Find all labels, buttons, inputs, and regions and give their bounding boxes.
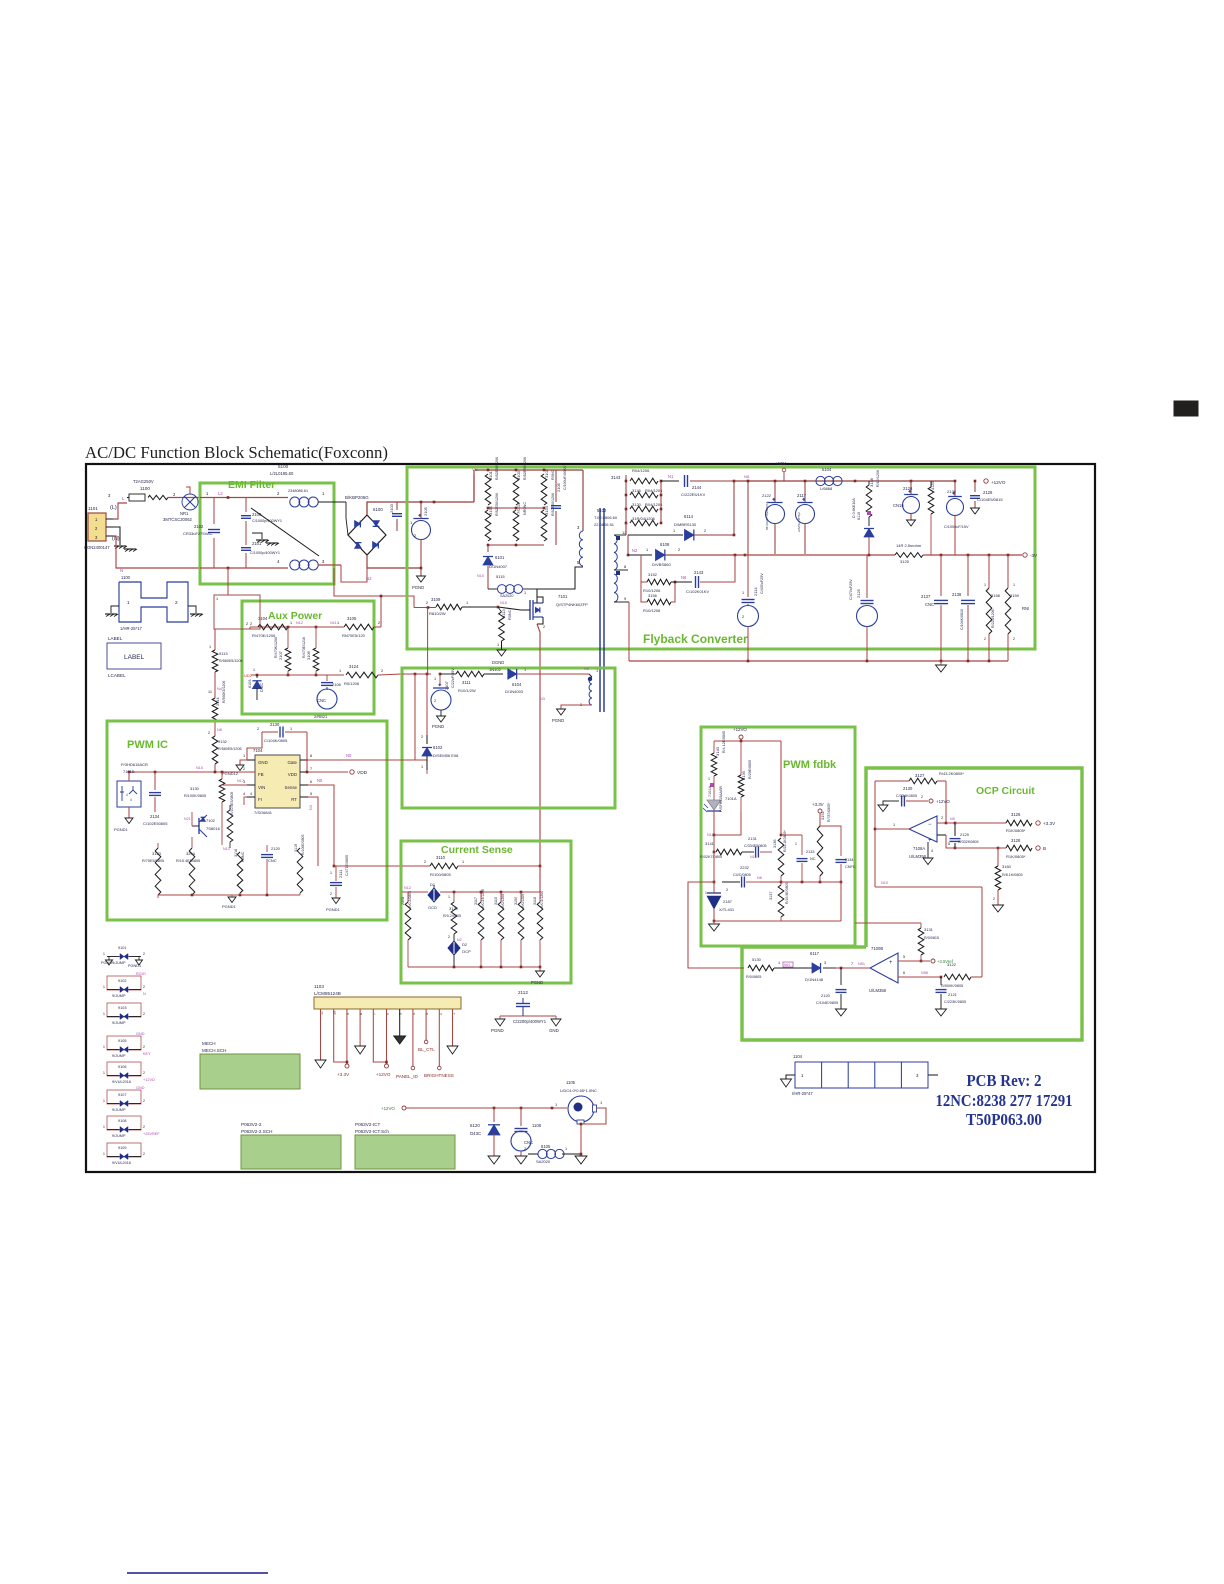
ground inductor right [188,606,196,613]
svg-text:RT: RT [291,797,297,802]
transistor 7102 [195,818,211,834]
svg-text:7100B: 7100B [871,946,883,951]
cap 2232 [713,852,715,882]
bridge rectifier 6100 [348,515,386,555]
svg-text:3151: 3151 [820,811,825,820]
svg-text:OCP Circuit: OCP Circuit [976,785,1035,797]
Current Sense block [401,841,571,983]
resistor 7S114 [513,510,519,541]
svg-text:6104: 6104 [512,682,522,687]
svg-text:SA2020: SA2020 [500,594,514,598]
cap 2130 [262,731,278,733]
svg-text:3101: 3101 [488,470,493,480]
svg-text:2112: 2112 [518,990,528,995]
svg-text:N58: N58 [921,971,928,975]
resistor 3116 [237,852,243,893]
svg-text:3124: 3124 [349,664,359,669]
wire opamp pin5 [937,834,946,836]
svg-text:D1: D1 [430,882,436,887]
cap 2114b [747,555,749,597]
resistor 3111 [440,673,456,675]
svg-text:N15: N15 [196,766,203,770]
svg-text:2134: 2134 [845,858,853,862]
svg-text:T.02.0806.60: T.02.0806.60 [594,515,618,520]
svg-text:R/75E5/0805: R/75E5/0805 [142,859,164,863]
svg-text:(L): (L) [110,505,117,511]
svg-text:3129: 3129 [449,906,459,911]
schematic border frame [86,464,1095,1172]
ground ocp cap [883,801,887,805]
section tab marker [1174,401,1198,416]
wire fdbk to ocp input [688,882,744,968]
svg-text:+: + [889,960,893,966]
svg-text:9113: 9113 [219,651,228,656]
svg-text:1: 1 [462,860,464,864]
svg-text:2137: 2137 [921,594,931,599]
svg-text:2: 2 [143,1071,145,1075]
svg-text:C/430uF25V: C/430uF25V [760,573,764,594]
PWM IC block [107,721,387,920]
svg-text:3141: 3141 [705,841,715,846]
svg-text:1108: 1108 [532,1123,542,1128]
svg-text:N: N [120,568,123,573]
svg-text:1: 1 [216,597,218,601]
svg-text:4: 4 [126,793,128,797]
svg-text:6102: 6102 [433,745,443,750]
earth ground Y-caps [252,533,262,539]
svg-text:R/470E/1206: R/470E/1206 [252,633,276,638]
svg-text:R/0.2/0805: R/0.2/0805 [443,914,461,918]
spark gap 9103 [107,1003,141,1017]
diode 6114 [625,523,627,535]
wire B out [955,847,998,849]
diamond OCP [453,934,455,941]
svg-text:+12VO: +12VO [376,1072,391,1077]
ground DGND [501,641,503,650]
cap 2121 [940,977,942,985]
svg-text:3125: 3125 [931,482,935,490]
connector 1101 [88,513,106,541]
resistor 3146 [630,492,658,498]
diode 6120 [493,1108,495,1122]
svg-text:9/JUMP: 9/JUMP [112,1054,126,1058]
zener 6110 [864,529,874,538]
svg-text:2: 2 [208,731,210,735]
svg-text:C/2200p/400WY1: C/2200p/400WY1 [513,1019,547,1024]
transformer secondary winding lower [614,574,618,602]
svg-text:PGND1: PGND1 [326,907,341,912]
svg-text:2105: 2105 [556,482,561,492]
diode 6103 [256,675,258,678]
svg-text:+12VD: +12VD [143,1078,155,1082]
inductor 3125 [895,553,923,558]
svg-text:7S8016: 7S8016 [206,826,221,831]
svg-text:1: 1 [253,668,255,672]
svg-text:Gate: Gate [287,760,297,765]
svg-text:4: 4 [243,792,245,796]
svg-text:6110: 6110 [857,512,861,520]
inductor 1100 block [119,582,188,622]
wire +12V to -3V riser [747,481,749,555]
svg-text:2107: 2107 [444,680,449,690]
cap 2126b [974,481,976,492]
svg-text:1: 1 [778,961,780,965]
cap 2131 [755,847,757,858]
svg-text:D2: D2 [462,942,468,947]
wire bridge + rail [367,502,474,515]
svg-text:+12V: +12V [775,461,787,466]
svg-text:N17: N17 [237,779,244,783]
svg-text:PGND: PGND [101,961,112,965]
wire 1103 pin1 gnd [452,1009,454,1046]
svg-text:X/TL431: X/TL431 [719,907,735,912]
svg-text:1: 1 [596,669,598,673]
svg-text:2: 2 [378,621,380,625]
wire shunt top [440,891,540,893]
svg-text:N8: N8 [217,728,222,732]
svg-text:2: 2 [257,727,259,731]
svg-text:P063V2-2.SCH: P063V2-2.SCH [241,1129,272,1134]
resistor 3115 [500,892,502,902]
wire aux out [378,674,402,675]
svg-text:R04/1206: R04/1206 [645,488,663,493]
svg-text:7101A: 7101A [725,796,737,801]
wire 1103 pin8 gnd [359,1009,361,1046]
svg-text:2: 2 [984,637,986,641]
svg-text:NC: NC [810,857,816,861]
op-amp 7106A [909,816,937,842]
svg-text:+3.3V: +3.3V [337,1072,350,1077]
svg-text:AC/DC Function Block Schematic: AC/DC Function Block Schematic(Foxconn) [85,443,388,462]
svg-text:PGND: PGND [432,724,444,729]
svg-text:2114: 2114 [215,697,220,706]
footer rule [127,1572,268,1574]
svg-text:3MTCSC20062: 3MTCSC20062 [163,517,193,522]
wire lower rail [488,544,544,546]
svg-text:L/6868: L/6868 [820,486,833,491]
svg-text:PWM IC: PWM IC [127,739,168,751]
svg-text:R/82E50/1206: R/82E50/1206 [523,457,527,480]
svg-text:R/470E/1216: R/470E/1216 [302,637,306,658]
EMI Filter block [200,483,334,584]
ground opamp 7106A [927,842,929,858]
svg-text:5115: 5115 [496,574,505,579]
svg-text:R/0/1206: R/0/1206 [521,894,525,908]
cap 2100 Y-cap [245,498,247,513]
diode 6101 [487,545,489,552]
svg-text:D/1N4007: D/1N4007 [489,564,508,569]
wire L2 [200,497,288,499]
svg-text:4: 4 [130,798,132,802]
svg-text:PGND1: PGND1 [222,904,237,909]
svg-text:7/SG6841: 7/SG6841 [254,810,273,815]
svg-text:T2AG250V: T2AG250V [133,479,154,484]
svg-text:-3V: -3V [1030,553,1038,558]
svg-text:1: 1 [209,645,211,649]
svg-text:12NC:8238 277 17291: 12NC:8238 277 17291 [936,1091,1073,1110]
svg-text:7102: 7102 [206,818,216,823]
common mode choke 5100 [290,497,300,507]
svg-text:3113: 3113 [501,609,506,618]
power +12VO flag fdbk [739,735,743,739]
svg-text:2: 2 [246,622,248,626]
svg-text:C4/C/0805: C4/C/0805 [733,873,751,877]
resistor 3127b [221,812,223,845]
svg-text:R/787/0805*: R/787/0805* [827,802,831,822]
svg-text:2: 2 [448,935,450,939]
svg-text:3105: 3105 [347,616,357,621]
svg-text:1: 1 [673,529,675,533]
cap 2134b [840,835,842,856]
svg-text:9103: 9103 [118,1006,126,1010]
wire choke to bridge [318,501,346,503]
capacitor 2102 X-cap [213,498,215,525]
svg-text:1: 1 [103,1099,105,1103]
svg-text:2117: 2117 [797,493,807,498]
ground PGND1 cap2111 [332,898,340,904]
svg-text:N12: N12 [296,621,303,625]
wire opamp out 2 [937,822,946,824]
wire N4 [214,672,216,698]
cap 2134 [154,772,156,790]
cap 2111 [334,865,336,867]
svg-text:R/29E/0805: R/29E/0805 [748,760,752,779]
svg-text:NR0NC: NR0NC [523,502,527,515]
svg-text:3160: 3160 [1002,864,1012,869]
svg-text:3119: 3119 [294,844,298,852]
wire PANEL_ID [412,1009,414,1066]
svg-text:C/22uF/35V: C/22uF/35V [451,668,455,688]
wire ocp left riser [874,781,876,887]
svg-text:R/100K/0805: R/100K/0805 [184,794,206,798]
svg-text:PCB Rev: 2: PCB Rev: 2 [967,1071,1042,1090]
coil 5104 [816,476,825,485]
cap 2130c [887,800,899,802]
resistor 3130 [221,772,223,779]
svg-text:1N102: 1N102 [489,667,502,672]
svg-text:−: − [889,977,893,983]
svg-text:2102: 2102 [194,524,204,529]
ground PGND aux winding [557,709,566,715]
shunt reg 2187 TL431 [707,896,721,909]
output +12VO [984,479,988,483]
diode D1 OCD [428,888,441,903]
gate drive wire [415,674,427,760]
svg-text:R04/1206: R04/1206 [632,468,650,473]
svg-text:D 0.6KE10A: D 0.6KE10A [852,498,856,518]
cap 2103 [396,502,398,510]
svg-text:7104: 7104 [253,748,263,753]
svg-text:3118: 3118 [533,897,537,905]
Aux Power block [242,601,374,714]
PWM fdbk block [701,727,855,946]
resistor 3118 [539,892,541,902]
resistor 3113 [499,612,505,641]
svg-text:3159: 3159 [1010,593,1020,598]
diode 6104 [508,669,517,679]
svg-text:R/8.1K/0805: R/8.1K/0805 [1002,873,1023,877]
svg-text:1101: 1101 [88,506,98,511]
svg-text:3146: 3146 [632,488,642,493]
cap 1108 [520,1108,522,1126]
svg-text:R/0/1206: R/0/1206 [501,894,505,908]
svg-text:3150: 3150 [514,897,518,905]
ground PGND1 rail [228,897,236,903]
svg-text:N11: N11 [330,621,337,625]
wire BL_CTL [425,1009,427,1040]
svg-text:R/100/0805: R/100/0805 [430,872,451,877]
svg-text:N21: N21 [184,817,191,821]
resistor 3122 [944,974,971,980]
wire aux right exit [380,596,382,627]
ground jack [580,1154,582,1156]
coil 5115 [487,566,489,589]
svg-text:9/JUMP: 9/JUMP [112,961,126,965]
wire VIN [222,784,247,786]
svg-text:2133: 2133 [806,850,814,854]
svg-text:1: 1 [243,754,245,758]
svg-text:7: 7 [310,767,312,771]
svg-text:3109: 3109 [431,597,441,602]
ground secondary [940,661,942,665]
resistor 3119 [297,848,303,893]
svg-text:2348086.61: 2348086.61 [288,489,308,493]
resistor 5130 [748,965,774,971]
svg-text:1: 1 [893,823,895,827]
svg-text:R/10/1206: R/10/1206 [876,470,880,487]
wire 1103 pin11 gnd [320,1009,322,1060]
svg-text:Current Sense: Current Sense [441,844,513,856]
svg-text:N2: N2 [457,938,462,942]
ground inductor left [111,606,119,613]
svg-text:2: 2 [243,767,245,771]
wire opamp5 ref [898,960,930,962]
svg-text:R/0.2/0805: R/0.2/0805 [408,891,412,908]
svg-text:Flyback Converter: Flyback Converter [643,632,748,646]
resistor 2107b [285,648,291,671]
svg-text:1: 1 [103,1152,105,1156]
wire MOSFET source sense [537,624,540,866]
svg-text:2: 2 [381,669,383,673]
svg-text:OCP: OCP [462,949,471,954]
resistor 2114c [212,698,218,722]
svg-text:3: 3 [726,888,728,892]
svg-text:D43C: D43C [470,1131,481,1136]
svg-text:R/0/0805: R/0/0805 [746,975,761,979]
svg-text:2114: 2114 [753,587,758,596]
wire L [113,503,127,519]
wire snubber join [733,481,735,535]
svg-text:N61: N61 [784,963,790,967]
svg-text:4: 4 [931,849,933,853]
svg-text:C/471E/0805: C/471E/0805 [345,855,349,876]
pin stub 1104 [928,1074,938,1076]
cap 2101 Y-cap [245,521,247,545]
svg-text:R0NC: R0NC [241,851,245,862]
svg-text:R/100E/0805: R/100E/0805 [301,835,305,855]
cap 2107 electrolytic [439,674,441,684]
ground 1108 [515,1156,527,1164]
svg-text:5: 5 [948,842,950,846]
svg-text:R/560E5/1206: R/560E5/1206 [219,659,243,663]
svg-text:5130: 5130 [752,957,762,962]
wire sense net [308,785,402,866]
svg-text:C/223K/0805: C/223K/0805 [944,1000,966,1004]
resistor 3129 [453,892,455,902]
svg-text:3158: 3158 [991,593,1001,598]
svg-text:9/JUMP: 9/JUMP [112,1021,126,1025]
wire N1 [661,480,679,482]
svg-text:1/HR-25*17: 1/HR-25*17 [120,626,143,631]
svg-text:R10/1206: R10/1206 [643,608,661,613]
svg-text:1: 1 [448,895,450,899]
svg-text:2103: 2103 [389,503,394,513]
svg-text:2: 2 [143,1125,145,1129]
resistor 3109 [436,604,462,610]
svg-text:R/82E50/1206: R/82E50/1206 [495,493,499,516]
svg-text:3136: 3136 [773,840,777,848]
svg-text:C/104K/0805: C/104K/0805 [264,738,288,743]
wire VB riser [473,475,475,502]
svg-text:1: 1 [497,643,499,647]
svg-text:2130: 2130 [903,786,913,791]
svg-text:2: 2 [524,1147,526,1151]
svg-text:2: 2 [143,952,145,956]
svg-text:1: 1 [795,842,797,846]
svg-text:2: 2 [993,897,995,901]
resistor 2308 [407,892,409,902]
svg-text:2: 2 [434,699,436,703]
svg-text:3130: 3130 [190,786,200,791]
svg-text:R04/1206: R04/1206 [645,502,663,507]
svg-text:1: 1 [127,600,130,605]
svg-text:3137: 3137 [769,892,773,900]
svg-text:N9: N9 [950,817,955,821]
svg-text:R/15.4E50806: R/15.4E50806 [176,859,200,863]
svg-text:R/82E50/1206: R/82E50/1206 [495,457,499,480]
wire secondary ground rail [629,660,1008,662]
cap 2125 [866,555,868,598]
bulk cap 2105 [412,521,431,540]
svg-text:C/1000uF/15V: C/1000uF/15V [944,525,969,529]
resistor 3154 [541,510,547,541]
resistor 3143 [630,478,658,484]
svg-text:3126: 3126 [1011,812,1021,817]
svg-text:N12: N12 [404,886,411,890]
svg-text:3148: 3148 [869,477,874,487]
svg-text:2122: 2122 [762,493,772,498]
spark gap 9108 [107,1116,141,1130]
svg-text:3115: 3115 [494,897,498,905]
resistor 3204 [189,848,195,895]
svg-text:1: 1 [466,601,468,605]
svg-text:6120: 6120 [470,1123,480,1128]
svg-text:2: 2 [421,735,423,739]
svg-text:P063V2-2: P063V2-2 [241,1122,262,1127]
wire shunt bottom rail [408,966,540,968]
svg-text:−: − [928,822,932,828]
wire fdbk bottom rail [714,920,841,922]
svg-text:CR33uF275VAC: CR33uF275VAC [183,531,213,536]
svg-text:2111: 2111 [338,869,343,878]
svg-text:9108: 9108 [118,1119,126,1123]
svg-text:LABEL: LABEL [124,654,145,661]
svg-text:R/560K5/1206: R/560K5/1206 [222,681,226,703]
svg-text:D/MBRS130: D/MBRS130 [674,522,697,527]
svg-text:4: 4 [250,792,252,796]
svg-text:N13: N13 [223,847,230,851]
svg-text:1: 1 [742,591,744,595]
